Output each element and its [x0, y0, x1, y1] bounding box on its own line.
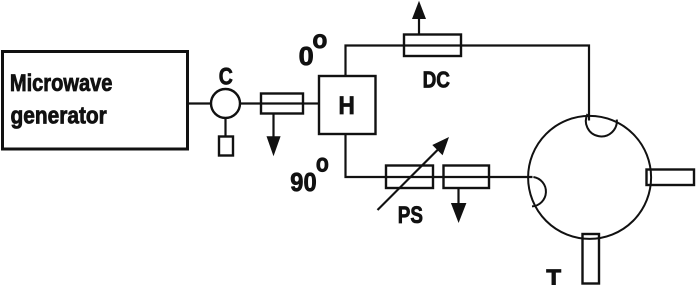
wire circulator to attenuator	[240, 102, 261, 104]
svg-text:90: 90	[290, 167, 316, 197]
phase shifter PS	[386, 166, 433, 189]
attenuator A1	[261, 94, 303, 114]
wire generator to circulator	[188, 102, 212, 104]
microwave generator box	[3, 52, 188, 150]
directional coupler DC	[404, 35, 461, 57]
coupled-port arrow of A2	[451, 188, 467, 223]
wire through PS and A2	[386, 176, 533, 178]
svg-text:PS: PS	[398, 202, 423, 229]
svg-text:T: T	[546, 265, 561, 285]
label Microwave generator	[10, 70, 113, 130]
svg-text:H: H	[339, 92, 355, 120]
wire attenuator to hybrid	[303, 102, 319, 104]
termination load	[219, 137, 233, 156]
coupled-port arrow of DC	[412, 1, 426, 35]
attenuator A2	[444, 166, 490, 189]
wire hybrid top to DC coupler	[346, 46, 405, 77]
top coupling loop	[586, 114, 617, 136]
wire circulator to termination	[224, 118, 226, 137]
wire hybrid bottom to phase shifter	[346, 134, 387, 177]
coupled-port arrow of A1	[267, 114, 281, 157]
right output port	[647, 170, 695, 186]
circulator C	[211, 89, 240, 118]
wire DC to cavity top	[461, 46, 589, 121]
svg-text:o: o	[316, 148, 329, 178]
variable arrow of PS	[378, 137, 450, 210]
label 90 deg	[290, 148, 329, 198]
svg-text:Microwave: Microwave	[10, 70, 113, 97]
left coupling loop	[532, 177, 546, 206]
svg-text:generator: generator	[11, 103, 107, 130]
thermometer T	[583, 234, 600, 284]
hybrid junction H	[319, 76, 376, 134]
wire through DC	[404, 44, 461, 46]
cavity resonator	[528, 116, 651, 239]
label 0 deg	[299, 24, 328, 71]
svg-text:o: o	[312, 24, 327, 54]
svg-text:C: C	[219, 64, 233, 91]
svg-text:DC: DC	[423, 67, 450, 93]
wire through attenuator A1	[261, 102, 303, 104]
